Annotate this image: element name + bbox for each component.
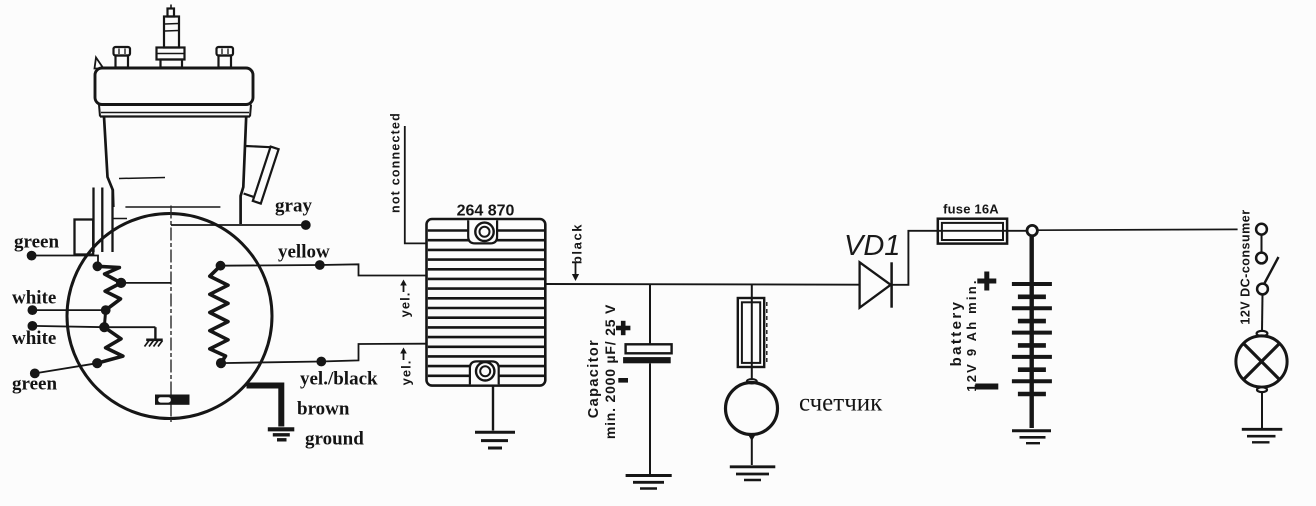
wire to internal ground — [104, 326, 155, 328]
plus sign — [977, 279, 996, 284]
svg-text:Capacitor: Capacitor — [586, 339, 602, 418]
svg-text:white: white — [12, 288, 56, 309]
svg-text:fuse 16A: fuse 16A — [943, 202, 999, 217]
node yel./black terminal — [317, 357, 326, 366]
engine cylinder assembly — [75, 5, 279, 255]
wire tap to centerline — [121, 282, 171, 284]
node green top terminal — [27, 251, 36, 260]
stud bolt right — [217, 47, 234, 68]
cylinder body — [104, 117, 246, 225]
wire gray — [171, 224, 302, 226]
fuse of meter branch — [738, 284, 767, 380]
ground lamp — [1242, 429, 1283, 442]
cylinder head — [95, 58, 254, 117]
magneto generator circle — [67, 214, 272, 419]
engine mounting bracket left — [75, 188, 113, 255]
stud bolt left — [114, 47, 131, 68]
fuse 16A — [938, 219, 1007, 244]
label yel. arrow 1 — [398, 280, 413, 318]
diode VD1 — [860, 262, 892, 307]
exhaust flange — [244, 146, 279, 204]
node coil tap — [117, 278, 126, 287]
node coil top (green) — [93, 262, 102, 271]
coil L1 lighting coil upper — [97, 266, 121, 310]
node coil bottom (green) — [93, 359, 102, 368]
marker rectangle at circle bottom — [155, 395, 190, 405]
meter (speedo counter) — [726, 379, 778, 465]
mounting tab top — [468, 220, 497, 243]
node gray terminal — [301, 221, 310, 230]
ground meter — [730, 467, 776, 480]
node white 2 terminal — [28, 322, 37, 331]
node junction after fuse — [1027, 225, 1037, 235]
battery — [975, 236, 1052, 428]
node coil L2 top — [216, 261, 225, 270]
wire green bottom — [35, 363, 97, 373]
wire node to consumer — [1037, 228, 1237, 231]
lamp 12V consumer — [1236, 331, 1287, 428]
ground battery — [1012, 431, 1051, 443]
node coil L2 bottom — [216, 359, 225, 368]
svg-text:min. 2000 µF/ 25 V: min. 2000 µF/ 25 V — [602, 304, 618, 439]
label yel. arrow 2 — [399, 348, 414, 386]
svg-text:brown: brown — [297, 399, 350, 420]
svg-text:black: black — [570, 223, 585, 264]
svg-text:yel.: yel. — [399, 360, 414, 386]
wire thick ground (brown) — [247, 386, 282, 427]
crankshaft centerline — [170, 206, 172, 423]
mounting tab bottom — [470, 361, 499, 384]
svg-text:yel./black: yel./black — [300, 369, 378, 390]
ground capacitor — [626, 476, 672, 489]
svg-text:VD1: VD1 — [844, 230, 900, 262]
switch — [1256, 224, 1278, 331]
svg-text:green: green — [14, 232, 59, 253]
node white 1 terminal — [28, 306, 37, 315]
node white2 tap — [100, 323, 109, 332]
svg-text:ground: ground — [305, 429, 364, 450]
coil L2 charging coil — [210, 266, 228, 363]
capacitor C — [616, 284, 672, 475]
wire link between taps — [104, 310, 105, 327]
node white1 tap — [101, 306, 110, 315]
wire white 1 — [32, 309, 105, 311]
plus sign — [616, 326, 630, 331]
svg-text:12V DC-consumer: 12V DC-consumer — [1238, 209, 1252, 324]
label black with arrow — [570, 223, 585, 281]
fins — [428, 231, 544, 376]
svg-text:счетчик: счетчик — [799, 390, 883, 417]
coil L1 lighting coil lower — [97, 327, 123, 363]
svg-text:green: green — [12, 374, 57, 395]
svg-text:264 870: 264 870 — [457, 203, 515, 220]
svg-text:not connected: not connected — [389, 112, 403, 213]
wire white 2 — [32, 326, 104, 327]
svg-text:white: white — [12, 328, 56, 349]
spark plug — [157, 5, 185, 68]
node yellow terminal — [315, 261, 324, 270]
wire main DC bus — [545, 283, 859, 286]
svg-text:yellow: yellow — [278, 242, 330, 263]
svg-text:battery: battery — [948, 300, 965, 367]
wire green top — [32, 256, 98, 267]
long plates — [1012, 284, 1052, 381]
wire diode to fuse — [892, 231, 1027, 285]
svg-text:gray: gray — [275, 196, 312, 217]
short plates — [1018, 297, 1046, 394]
ground internal chassis — [145, 327, 163, 346]
wire yellow — [221, 264, 427, 275]
node green bottom terminal — [30, 369, 39, 378]
svg-text:12V 9 Ah min.: 12V 9 Ah min. — [964, 278, 979, 391]
wire not connected — [405, 126, 427, 243]
minus sign — [618, 378, 628, 383]
ground engine main — [268, 429, 295, 440]
minus sign — [975, 384, 998, 390]
regulator 264 870 — [427, 219, 546, 386]
ground regulator — [475, 386, 515, 448]
svg-text:yel.: yel. — [398, 292, 413, 318]
wire yellow/black — [221, 344, 427, 363]
